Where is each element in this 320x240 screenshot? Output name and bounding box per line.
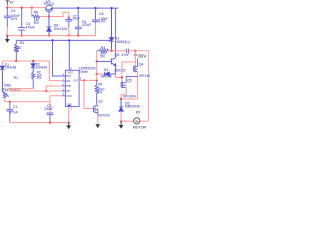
node R3 bottom (15, 60, 17, 62)
wire Q5 source to flyback node (121, 88, 126, 100)
svg-text:RST: RST (66, 75, 71, 78)
node C6 rail (77, 7, 79, 9)
capacitor C4 (4, 16, 11, 27)
node gate vertical (121, 76, 123, 78)
ground symbol mid (68, 123, 70, 126)
svg-text:1N4148: 1N4148 (36, 66, 47, 70)
power supply 9V symbol (6, 1, 10, 5)
wire base node to C7 jog (49, 12, 69, 18)
svg-text:C8: C8 (99, 12, 104, 16)
node C4 gnd (6, 34, 8, 36)
wire OUT pin (79, 79, 97, 81)
node C5 top (21, 6, 23, 8)
wire Q2 source down (97, 116, 99, 125)
wire C7 bottom (68, 27, 70, 36)
svg-text:1N4742A: 1N4742A (54, 27, 69, 31)
wire C4 bottom to ground bus (6, 27, 8, 36)
wire CON to C2 (50, 96, 62, 113)
svg-text:1N4148: 1N4148 (100, 75, 112, 79)
resistor R2 (32, 72, 35, 79)
bottom ground bus left (10, 122, 69, 124)
transistor Q3 2N2222 (111, 58, 115, 66)
ground symbol left (6, 36, 8, 40)
ground bus upper (7, 21, 95, 35)
wire R4 right to node (109, 50, 112, 52)
diode D2 (31, 61, 35, 72)
svg-text:IRF1405: IRF1405 (139, 74, 150, 78)
wire OUT column up to R4 (96, 51, 98, 81)
svg-text:DIS: DIS (66, 80, 70, 83)
svg-text:5%: 5% (14, 49, 19, 53)
svg-text:5%: 5% (100, 54, 105, 58)
capacitor C5 electrolytic (18, 28, 25, 36)
wire pot bottom (5, 98, 50, 102)
svg-text:TRI: TRI (66, 90, 70, 93)
wire R6 left lead (31, 8, 33, 17)
svg-text:4.7uF: 4.7uF (9, 111, 17, 115)
resistor R4 (99, 49, 108, 52)
diode D4 (97, 72, 116, 76)
node D4 branch (96, 73, 98, 75)
svg-text:10%: 10% (11, 17, 18, 21)
resistor R3 (15, 44, 18, 52)
node V+ R3 corner down (15, 40, 17, 44)
node gate branch (134, 50, 136, 52)
ground symbol Q2 (95, 124, 100, 128)
node L1 VCC column (68, 39, 70, 41)
capacitor C2 (47, 113, 54, 123)
wire THR TRI to pot wiper (8, 90, 62, 92)
svg-text:5%: 5% (98, 90, 103, 94)
wire R2 bottom to wiper (10, 89, 33, 91)
svg-text:THR: THR (66, 85, 71, 88)
wire GND pin to bus (68, 107, 70, 123)
svg-text:10uF: 10uF (73, 17, 81, 21)
bus D1 D2 DIS y61 (2, 61, 62, 81)
node flyback (120, 98, 122, 100)
node THR branch (45, 90, 47, 92)
GND pin wedge (67, 105, 70, 107)
resistor R5 (95, 80, 98, 96)
svg-text:1N4148: 1N4148 (5, 65, 16, 69)
svg-text:Q4: Q4 (139, 62, 144, 66)
node C6 gnd (77, 34, 79, 36)
svg-text:C1: C1 (13, 105, 17, 109)
svg-text:Q5: Q5 (127, 78, 132, 82)
wire Q4 gate net (134, 51, 136, 66)
svg-text:47nF: 47nF (122, 53, 130, 57)
diode D3 (109, 8, 114, 51)
svg-text:100nF: 100nF (44, 107, 53, 111)
pin stub TRI (62, 90, 65, 92)
node C5 gnd (21, 34, 23, 36)
wire C6 lead (77, 8, 79, 27)
svg-text:C4: C4 (11, 9, 16, 13)
wire Q1 base lead (48, 14, 50, 17)
diode D1 (0, 61, 4, 92)
wire motor right (140, 120, 149, 122)
svg-text:R5: R5 (98, 82, 102, 86)
capacitor C8 (92, 20, 99, 23)
wire Q4 source to flyback node (121, 72, 138, 100)
wire node to C3 (112, 50, 127, 52)
motor M1 (134, 118, 140, 124)
diode D5 flyback (119, 99, 124, 121)
node main driver junction (110, 50, 113, 53)
svg-text:MOTOR: MOTOR (133, 126, 147, 130)
pin stub CON (62, 95, 65, 97)
svg-text:VCC: VCC (68, 72, 73, 75)
ground symbol right (120, 121, 122, 125)
node C8 rail (94, 7, 96, 9)
node C2 gnd (49, 121, 51, 123)
node D3 rail (110, 7, 112, 9)
capacitor C6 electrolytic (75, 27, 82, 35)
svg-text:Q2: Q2 (98, 100, 103, 104)
svg-text:R3: R3 (20, 41, 24, 45)
blue emitter rail (52, 7, 118, 9)
wire motor left (121, 120, 134, 122)
node C7 top (68, 17, 70, 19)
svg-text:D4: D4 (104, 68, 109, 72)
svg-text:R6: R6 (34, 10, 38, 14)
node GND bus (68, 121, 70, 123)
wire C5 top lead (21, 8, 23, 28)
svg-text:9V: 9V (9, 1, 14, 5)
svg-text:OUT: OUT (73, 79, 79, 82)
node motor left gnd (120, 120, 122, 122)
wire Q5 drain (126, 77, 137, 83)
svg-text:36V: 36V (138, 53, 147, 59)
wire rail corner down to Q3 collector (115, 8, 117, 58)
pin numbers (63, 68, 82, 111)
svg-text:R4: R4 (101, 46, 106, 50)
node at power drop (6, 6, 8, 8)
node C7 gnd (68, 34, 70, 36)
zener diode D6 (47, 17, 52, 36)
node Q1 base (48, 15, 50, 17)
probe label 36V (134, 54, 137, 56)
555 timer box U1 (65, 70, 79, 106)
capacitor C3 (127, 49, 129, 53)
pin stub THR (62, 85, 65, 87)
wire THR pin (46, 86, 62, 91)
wire C3 right to corner (129, 51, 149, 121)
svg-text:Timer: Timer (79, 70, 89, 74)
svg-text:M1: M1 (136, 110, 141, 114)
node OUT branch x84 (83, 79, 85, 81)
wire R6 to base node (40, 16, 49, 18)
wire Q3 base (97, 60, 112, 62)
svg-text:2N7000: 2N7000 (98, 114, 110, 118)
wire gate bus to Q5 (122, 62, 135, 82)
potentiometer R1 (2, 92, 6, 98)
node Q3 base branch (96, 60, 98, 62)
svg-text:C3: C3 (125, 41, 129, 45)
capacitor C7 (65, 18, 72, 27)
wire C8 lead (95, 8, 97, 20)
wire 9V rail red (7, 5, 45, 7)
svg-text:TIP31C: TIP31C (43, 2, 55, 6)
pin stub RST (62, 75, 65, 77)
svg-text:10%: 10% (99, 20, 106, 24)
svg-text:CON: CON (66, 95, 72, 98)
svg-text:5%: 5% (34, 21, 39, 25)
node OUT R5 (96, 79, 98, 81)
pin stub DIS (62, 80, 65, 82)
node D6 gnd (48, 34, 50, 36)
svg-text:MBR2545: MBR2545 (125, 105, 140, 109)
svg-text:470uF: 470uF (82, 23, 91, 27)
wire Q3 emitter junction to gate net (116, 74, 122, 78)
svg-text:5%: 5% (37, 76, 42, 80)
wire C4 top lead (6, 8, 8, 17)
transistor Q1 TIP31C (46, 5, 53, 14)
wire VCC pin column (68, 40, 70, 70)
capacitor C1 (6, 102, 13, 123)
svg-text:R1: R1 (14, 76, 18, 80)
svg-text:IRF2404: IRF2404 (123, 95, 136, 99)
resistor R6 (32, 15, 40, 18)
mosfet Q2 2N7000 (93, 105, 97, 116)
mosfet Q5 (121, 81, 126, 88)
wire RST from L1 (53, 40, 66, 76)
node L1 RST branch (51, 39, 53, 41)
node D2 top (32, 60, 34, 62)
wire gate drive routing (84, 80, 93, 108)
svg-text:470uF: 470uF (26, 26, 35, 30)
node C1 top (9, 101, 11, 103)
mosfet Q4 (134, 59, 138, 73)
node R6 top (31, 6, 33, 8)
wire Q3 emitter to D4 wire (115, 66, 117, 74)
pin labels (66, 72, 79, 107)
V+ distribution line blue (16, 39, 111, 41)
